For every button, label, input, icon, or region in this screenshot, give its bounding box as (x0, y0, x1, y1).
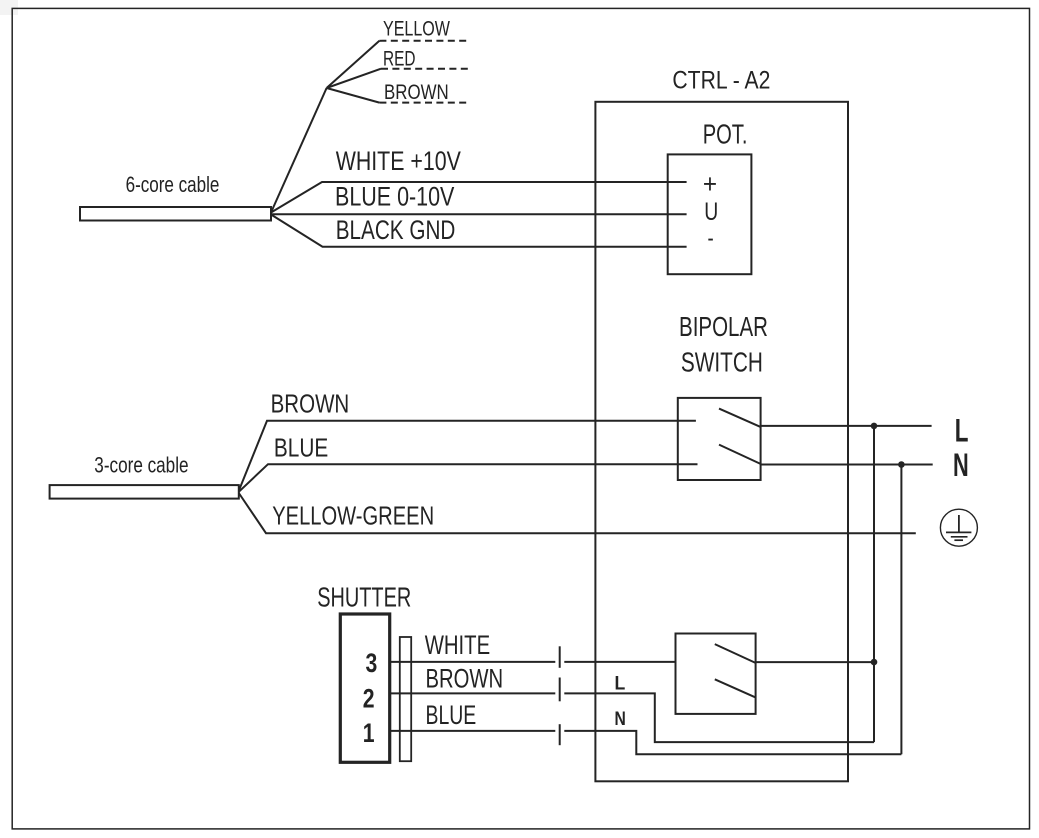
wire L output to terminal (761, 425, 932, 427)
wire YELLOW-GREEN to earth (239, 493, 916, 533)
POT. block (668, 154, 752, 274)
svg-text:-: - (708, 225, 714, 252)
svg-text:POT.: POT. (703, 119, 748, 150)
svg-text:BLUE: BLUE (426, 700, 477, 730)
svg-text:BLACK GND: BLACK GND (336, 215, 456, 245)
wire RED (dashed, unused) (327, 69, 381, 88)
wire: shutter switch output to L line (756, 661, 874, 663)
wire BLUE 0-10V (271, 213, 687, 215)
svg-text:CTRL - A2: CTRL - A2 (672, 66, 770, 94)
page border frame (0, 0, 18, 15)
svg-text:WHITE: WHITE (425, 630, 490, 661)
svg-text:N: N (953, 447, 969, 483)
wire WHITE +10V (271, 182, 687, 213)
svg-text:1: 1 (363, 719, 375, 749)
wire WHITE from terminal 3 (390, 661, 556, 663)
wire BROWN (dashed, unused) (327, 88, 380, 103)
wire BLUE (3-core) to bipolar switch pole 2 (239, 464, 698, 492)
svg-text:BLUE 0-10V: BLUE 0-10V (335, 182, 455, 212)
svg-text:SHUTTER: SHUTTER (317, 582, 411, 613)
shutter switch blade 2 (715, 679, 756, 697)
wire N output to terminal (761, 464, 933, 466)
3-core cable (50, 485, 239, 499)
connector break tick on BLUE (559, 724, 561, 745)
svg-text:3: 3 (366, 649, 378, 679)
CTRL-A2 enclosure box (595, 102, 848, 782)
terminal strip (400, 637, 411, 761)
svg-text:6-core cable: 6-core cable (126, 173, 220, 198)
wire BROWN (3-core) to bipolar switch pole 1 (239, 421, 696, 491)
svg-text:BLUE: BLUE (274, 433, 328, 462)
svg-text:L: L (615, 672, 626, 694)
wire: unused-core fan from 6-core cable (271, 88, 327, 213)
6-core cable (80, 207, 271, 221)
shutter relay switch box (676, 634, 756, 714)
svg-text:RED: RED (383, 46, 415, 70)
junction node switch output on L drop (871, 659, 878, 666)
bipolar switch blade pole 1 (719, 409, 761, 427)
svg-text:N: N (615, 707, 626, 729)
svg-text:BROWN: BROWN (271, 389, 350, 418)
svg-text:3-core cable: 3-core cable (94, 454, 188, 479)
wire BLACK GND (271, 215, 687, 247)
wire YELLOW (dashed, unused) (327, 41, 380, 88)
protective earth symbol (940, 509, 977, 546)
svg-text:YELLOW: YELLOW (383, 17, 450, 41)
bipolar switch blade pole 2 (719, 445, 761, 464)
wire BLUE from terminal 1 (N path) (390, 730, 556, 732)
svg-text:BROWN: BROWN (426, 664, 504, 695)
svg-text:+: + (703, 170, 717, 199)
svg-text:BROWN: BROWN (384, 81, 449, 104)
bipolar switch box (678, 398, 761, 480)
svg-text:U: U (704, 198, 718, 226)
svg-text:L: L (955, 413, 969, 449)
svg-text:BIPOLAR: BIPOLAR (679, 312, 768, 343)
svg-text:WHITE +10V: WHITE +10V (336, 147, 462, 177)
wire BROWN from terminal 2 (L path) (390, 692, 556, 694)
connector break tick on WHITE (559, 646, 561, 668)
svg-text:YELLOW-GREEN: YELLOW-GREEN (272, 501, 434, 530)
svg-text:2: 2 (363, 684, 375, 714)
wire: L vertical drop (873, 426, 875, 742)
connector break tick on BROWN (559, 678, 561, 702)
junction node on L at terminal row (871, 423, 878, 430)
SHUTTER connector box (340, 614, 389, 762)
junction node on N at terminal row (898, 461, 905, 468)
wire: N vertical drop (900, 465, 902, 755)
shutter switch blade 1 (715, 644, 756, 663)
svg-text:SWITCH: SWITCH (681, 348, 763, 379)
